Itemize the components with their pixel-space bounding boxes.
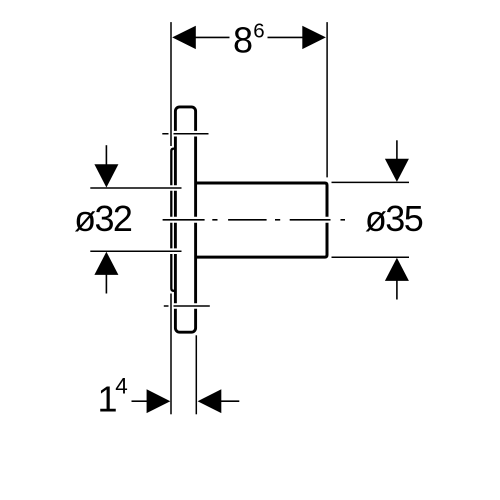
flange plate outline bbox=[175, 107, 195, 332]
extension line diameter 35 lower bbox=[332, 254, 410, 260]
centre line axis dash 2 bbox=[228, 217, 267, 223]
centre line axis dot 1 bbox=[212, 217, 217, 223]
centre line axis dash 3 bbox=[290, 217, 331, 223]
svg-text:ø35: ø35 bbox=[365, 198, 423, 239]
break tick lower across flange bbox=[164, 303, 210, 309]
dimension arrow diameter 32 top bbox=[94, 145, 118, 187]
dimension line 1.4 right tail bbox=[220, 400, 239, 402]
centre line axis dot 3 bbox=[341, 217, 346, 223]
pipe spigot outline bbox=[197, 183, 327, 257]
seal collar on flange face bbox=[171, 149, 175, 291]
dimension arrow diameter 32 bottom bbox=[94, 252, 118, 294]
dimension arrow 1.4 right bbox=[198, 389, 222, 413]
break tick upper across flange bbox=[162, 131, 208, 137]
dimension arrow diameter 35 bottom bbox=[385, 258, 409, 300]
dimension line 8.6 right segment bbox=[268, 36, 303, 38]
centre line axis dot 2 bbox=[275, 217, 280, 223]
extension line diameter 32 lower bbox=[90, 248, 181, 254]
dimension arrow 8.6 left bbox=[172, 26, 196, 49]
dimension arrow 1.4 left bbox=[147, 389, 171, 413]
svg-text:6: 6 bbox=[253, 20, 264, 43]
extension line diameter 35 upper bbox=[332, 180, 410, 186]
extension line top dimension right bbox=[325, 22, 330, 177]
extension line top dimension left bbox=[169, 22, 174, 146]
extension line bottom dimension right bbox=[194, 335, 199, 414]
svg-text:ø32: ø32 bbox=[74, 198, 132, 239]
centre line axis dash 1 bbox=[163, 217, 205, 223]
dimension line 1.4 left tail bbox=[132, 400, 148, 402]
dimension line 8.6 left segment bbox=[196, 36, 230, 38]
svg-text:4: 4 bbox=[115, 373, 128, 398]
extension line bottom dimension left bbox=[169, 294, 174, 415]
dimension arrow diameter 35 top bbox=[385, 140, 409, 182]
dimension arrow 8.6 right bbox=[302, 26, 326, 49]
svg-text:8: 8 bbox=[233, 20, 253, 61]
extension line diameter 32 upper bbox=[90, 185, 181, 191]
